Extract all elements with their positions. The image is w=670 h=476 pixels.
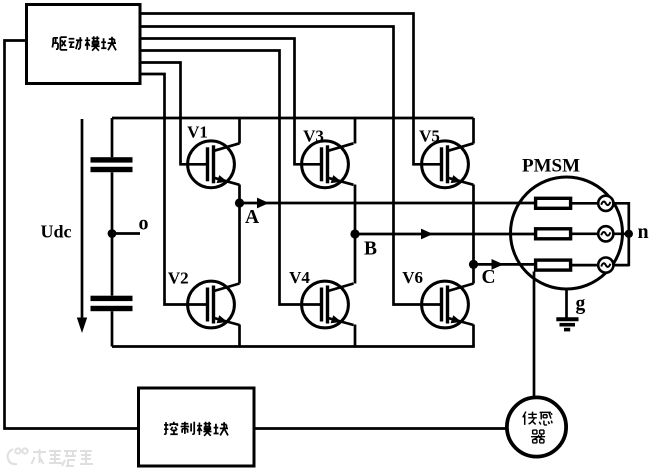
svg-text:V1: V1 bbox=[187, 123, 208, 142]
svg-text:o: o bbox=[139, 213, 149, 235]
svg-text:g: g bbox=[576, 294, 586, 315]
svg-text:C: C bbox=[482, 267, 496, 288]
svg-text:Udc: Udc bbox=[41, 222, 72, 242]
svg-text:V4: V4 bbox=[289, 268, 310, 287]
svg-text:V5: V5 bbox=[419, 126, 440, 145]
svg-text:V3: V3 bbox=[303, 126, 324, 145]
svg-text:n: n bbox=[638, 221, 649, 243]
svg-text:PMSM: PMSM bbox=[522, 155, 580, 176]
svg-text:A: A bbox=[245, 207, 259, 228]
svg-text:V6: V6 bbox=[402, 268, 423, 287]
svg-text:V2: V2 bbox=[168, 268, 189, 287]
svg-text:B: B bbox=[364, 239, 377, 260]
